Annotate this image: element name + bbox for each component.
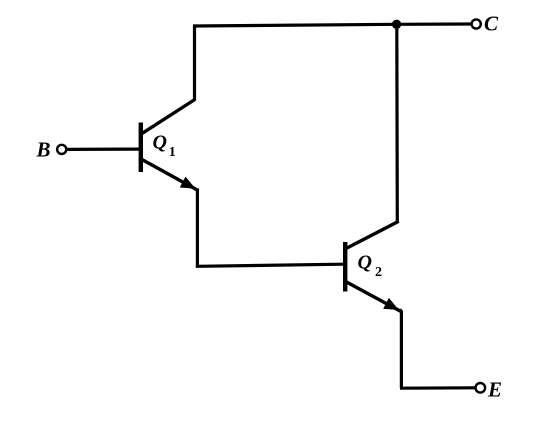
svg-text:2: 2	[375, 265, 382, 280]
transistor Q2	[343, 221, 401, 311]
terminal E	[476, 383, 486, 393]
wire B terminal to Q1 base	[67, 148, 139, 151]
junction node (collector tie point)	[392, 20, 401, 29]
wire Q2 emitter down to bottom rail	[400, 310, 402, 389]
wire bottom rail to E terminal	[400, 386, 476, 390]
svg-text:Q: Q	[358, 252, 372, 274]
wire top rail to C terminal	[193, 24, 472, 26]
label Q1	[153, 132, 176, 161]
label E	[487, 378, 502, 402]
label C	[484, 12, 499, 36]
label B	[36, 138, 51, 162]
terminal C	[472, 19, 481, 28]
svg-text:C: C	[484, 12, 499, 36]
svg-text:Q: Q	[153, 132, 167, 154]
wire Q1 emitter down and across to Q2 base	[197, 189, 343, 267]
wire Q1 collector up to top rail	[193, 26, 196, 101]
transistor Q1	[139, 100, 197, 190]
svg-text:B: B	[36, 138, 51, 162]
svg-text:E: E	[487, 378, 502, 402]
label Q2	[358, 252, 383, 281]
terminal B	[57, 145, 66, 154]
wire junction down to Q2 collector	[395, 24, 399, 222]
svg-text:1: 1	[169, 145, 176, 160]
